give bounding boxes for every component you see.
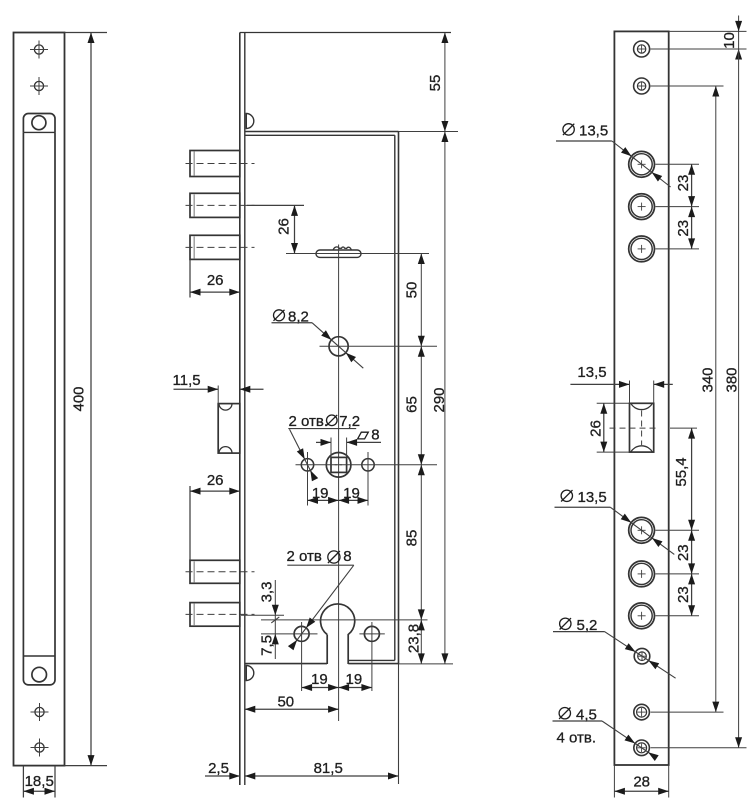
outer dimension chain line bbox=[444, 33, 446, 664]
inner dimension chain line bbox=[420, 254, 422, 664]
bolt hole 13,5 #3 bbox=[629, 236, 699, 262]
dimension 19-19 (follower holes) bbox=[308, 452, 369, 506]
dimension 19-19 (bottom holes) bbox=[302, 671, 372, 691]
bolt hole 13,5 #2 bbox=[629, 194, 699, 220]
keyhole centre line bbox=[261, 619, 428, 621]
dimension 340 line bbox=[700, 86, 720, 712]
svg-text:55,4: 55,4 bbox=[673, 457, 690, 486]
label diameter 8,2 bbox=[272, 309, 364, 369]
dimension 3,3 bbox=[241, 580, 284, 659]
dimension 23 (holes 2-3) bbox=[675, 207, 695, 249]
dimension 81,5 bbox=[245, 760, 399, 779]
label 2 holes diameter 7,2 bbox=[288, 413, 360, 481]
dimension 28 bbox=[614, 765, 668, 798]
screw hole bottom-2 bbox=[31, 739, 49, 757]
svg-text:23,8: 23,8 bbox=[406, 624, 423, 653]
svg-text:65: 65 bbox=[404, 396, 421, 413]
svg-text:4 отв.: 4 отв. bbox=[557, 730, 597, 747]
dimension 2,5 bbox=[205, 760, 240, 780]
deadbolt 4 bbox=[186, 560, 255, 583]
hole 8 right bbox=[359, 622, 384, 691]
screw hole top-2 bbox=[30, 77, 48, 95]
channel right side bbox=[54, 132, 56, 656]
svg-text:290: 290 bbox=[431, 387, 448, 412]
label diameter 13,5 (lower) bbox=[555, 489, 675, 554]
dimension 23 (holes 4-5) bbox=[675, 530, 695, 574]
hole 8,2 centre line bbox=[320, 345, 438, 347]
channel bottom rounded end bbox=[23, 656, 55, 685]
deadbolt 3 bbox=[186, 235, 255, 259]
dimension 7,5 bbox=[259, 634, 279, 656]
svg-text:23: 23 bbox=[675, 220, 692, 237]
dimension 23,8 bbox=[399, 620, 454, 664]
svg-text:13,5: 13,5 bbox=[577, 364, 606, 381]
dimension 55 bbox=[427, 33, 448, 132]
dimension 23 (holes 1-2) bbox=[675, 164, 695, 206]
dimension 26 (top bolt length) bbox=[190, 259, 240, 297]
follower centre line bbox=[296, 464, 438, 466]
deadbolt 2 bbox=[186, 193, 255, 217]
case right edge bbox=[395, 132, 399, 785]
spindle cam bbox=[316, 247, 361, 258]
cam centre line bbox=[286, 253, 429, 255]
svg-text:19: 19 bbox=[312, 485, 329, 502]
hole 7,2 right bbox=[362, 459, 374, 471]
svg-text:18,5: 18,5 bbox=[25, 773, 54, 790]
channel top rounded end bbox=[23, 113, 55, 132]
dimension 10 bbox=[721, 16, 742, 60]
hole 7,2 left bbox=[301, 459, 313, 471]
svg-text:3,3: 3,3 bbox=[259, 582, 276, 603]
hole 4,5 #3 bbox=[634, 704, 724, 720]
svg-text:400: 400 bbox=[71, 386, 88, 411]
dimension 26 (bolt to cam) bbox=[247, 205, 304, 253]
svg-text:26: 26 bbox=[588, 420, 605, 437]
svg-text:19: 19 bbox=[343, 485, 360, 502]
bolt hole 13,5 #5 bbox=[629, 561, 699, 587]
svg-text:50: 50 bbox=[277, 693, 294, 710]
svg-text:23: 23 bbox=[675, 586, 692, 603]
front strip plate outline (left view) bbox=[14, 33, 65, 766]
deadbolt 1 bbox=[186, 151, 255, 177]
label 2 holes diameter 8 bbox=[287, 548, 354, 650]
svg-text:340: 340 bbox=[700, 367, 717, 392]
deadbolt 5 bbox=[186, 603, 255, 627]
case top edge bbox=[245, 132, 458, 136]
detent bottom (D-shape) bbox=[246, 666, 254, 681]
svg-text:19: 19 bbox=[346, 671, 363, 688]
svg-text:23: 23 bbox=[675, 175, 692, 192]
svg-text:28: 28 bbox=[633, 774, 650, 791]
hole 8 left bbox=[261, 622, 318, 691]
svg-text:10: 10 bbox=[721, 32, 738, 49]
svg-text:81,5: 81,5 bbox=[314, 760, 343, 777]
lock faceplate (side view) bbox=[240, 33, 451, 786]
dimension 11,5 bbox=[173, 372, 264, 404]
svg-text:19: 19 bbox=[311, 671, 328, 688]
dimension 26 (box height) bbox=[588, 403, 630, 452]
svg-text:26: 26 bbox=[207, 472, 224, 489]
cylinder circle bottom bbox=[32, 667, 47, 682]
square follower circle bbox=[326, 453, 351, 478]
dimension 13,5 (box width) bbox=[570, 364, 672, 404]
bolt hole 13,5 #1 bbox=[629, 151, 699, 177]
countersunk hole top-1 bbox=[634, 41, 747, 57]
svg-text:55: 55 bbox=[427, 75, 444, 92]
svg-text:11,5: 11,5 bbox=[173, 372, 201, 389]
svg-text:23: 23 bbox=[675, 544, 692, 561]
dimension 380 line bbox=[724, 49, 743, 748]
svg-text:8: 8 bbox=[343, 548, 351, 565]
svg-text:50: 50 bbox=[404, 282, 421, 299]
svg-text:8: 8 bbox=[371, 426, 379, 443]
screw hole top-1 bbox=[30, 41, 48, 59]
hole 5,2 bbox=[634, 648, 650, 664]
latch box on faceplate bbox=[218, 404, 240, 454]
dimension 85 bbox=[404, 465, 425, 620]
svg-text:2 отв.: 2 отв. bbox=[289, 413, 329, 430]
cylinder circle top bbox=[32, 116, 46, 130]
vertical centre axis bbox=[338, 245, 340, 722]
keyhole bbox=[321, 604, 355, 664]
dimension 55,4 bbox=[670, 428, 697, 530]
label diameter 4,5 bbox=[553, 707, 659, 762]
dimension 50 bbox=[245, 693, 339, 712]
dimension 400 bbox=[65, 33, 108, 766]
svg-text:13,5: 13,5 bbox=[578, 489, 607, 506]
dimension 290 bbox=[431, 132, 449, 664]
dimension 18,5 bbox=[23, 766, 55, 798]
bolt hole 13,5 #6 bbox=[629, 603, 699, 629]
hole 4,5 #4 bbox=[634, 740, 747, 756]
svg-text:2,5: 2,5 bbox=[208, 760, 229, 777]
dimension 50 (cam to hole) bbox=[404, 254, 425, 347]
latch window box bbox=[610, 403, 659, 452]
dimension 65 bbox=[404, 346, 425, 465]
countersunk hole top-2 bbox=[634, 78, 724, 94]
dimension square 8 bbox=[316, 426, 381, 457]
svg-text:85: 85 bbox=[404, 530, 421, 547]
bolt hole 13,5 #4 bbox=[629, 517, 699, 543]
dimension 26 (lower bolt length) bbox=[190, 472, 240, 560]
svg-text:26: 26 bbox=[276, 218, 293, 235]
label diameter 5,2 bbox=[553, 617, 676, 678]
svg-text:2 отв: 2 отв bbox=[287, 548, 322, 565]
svg-text:7,5: 7,5 bbox=[259, 635, 276, 656]
case bottom edge bbox=[245, 660, 399, 663]
channel left side bbox=[22, 132, 24, 656]
label diameter 13,5 (top) bbox=[556, 123, 671, 188]
screw hole bottom-1 bbox=[31, 703, 49, 721]
svg-text:26: 26 bbox=[207, 272, 224, 289]
hole diameter 8,2 bbox=[329, 337, 348, 356]
svg-text:380: 380 bbox=[724, 367, 741, 392]
detent top (D-shape) bbox=[246, 114, 254, 129]
square hole 8x8 bbox=[331, 457, 347, 472]
dimension 23 (holes 5-6) bbox=[675, 574, 695, 616]
back plate outline (right view) bbox=[614, 31, 746, 765]
svg-text:7,2: 7,2 bbox=[339, 413, 360, 430]
svg-text:13,5: 13,5 bbox=[579, 123, 608, 140]
